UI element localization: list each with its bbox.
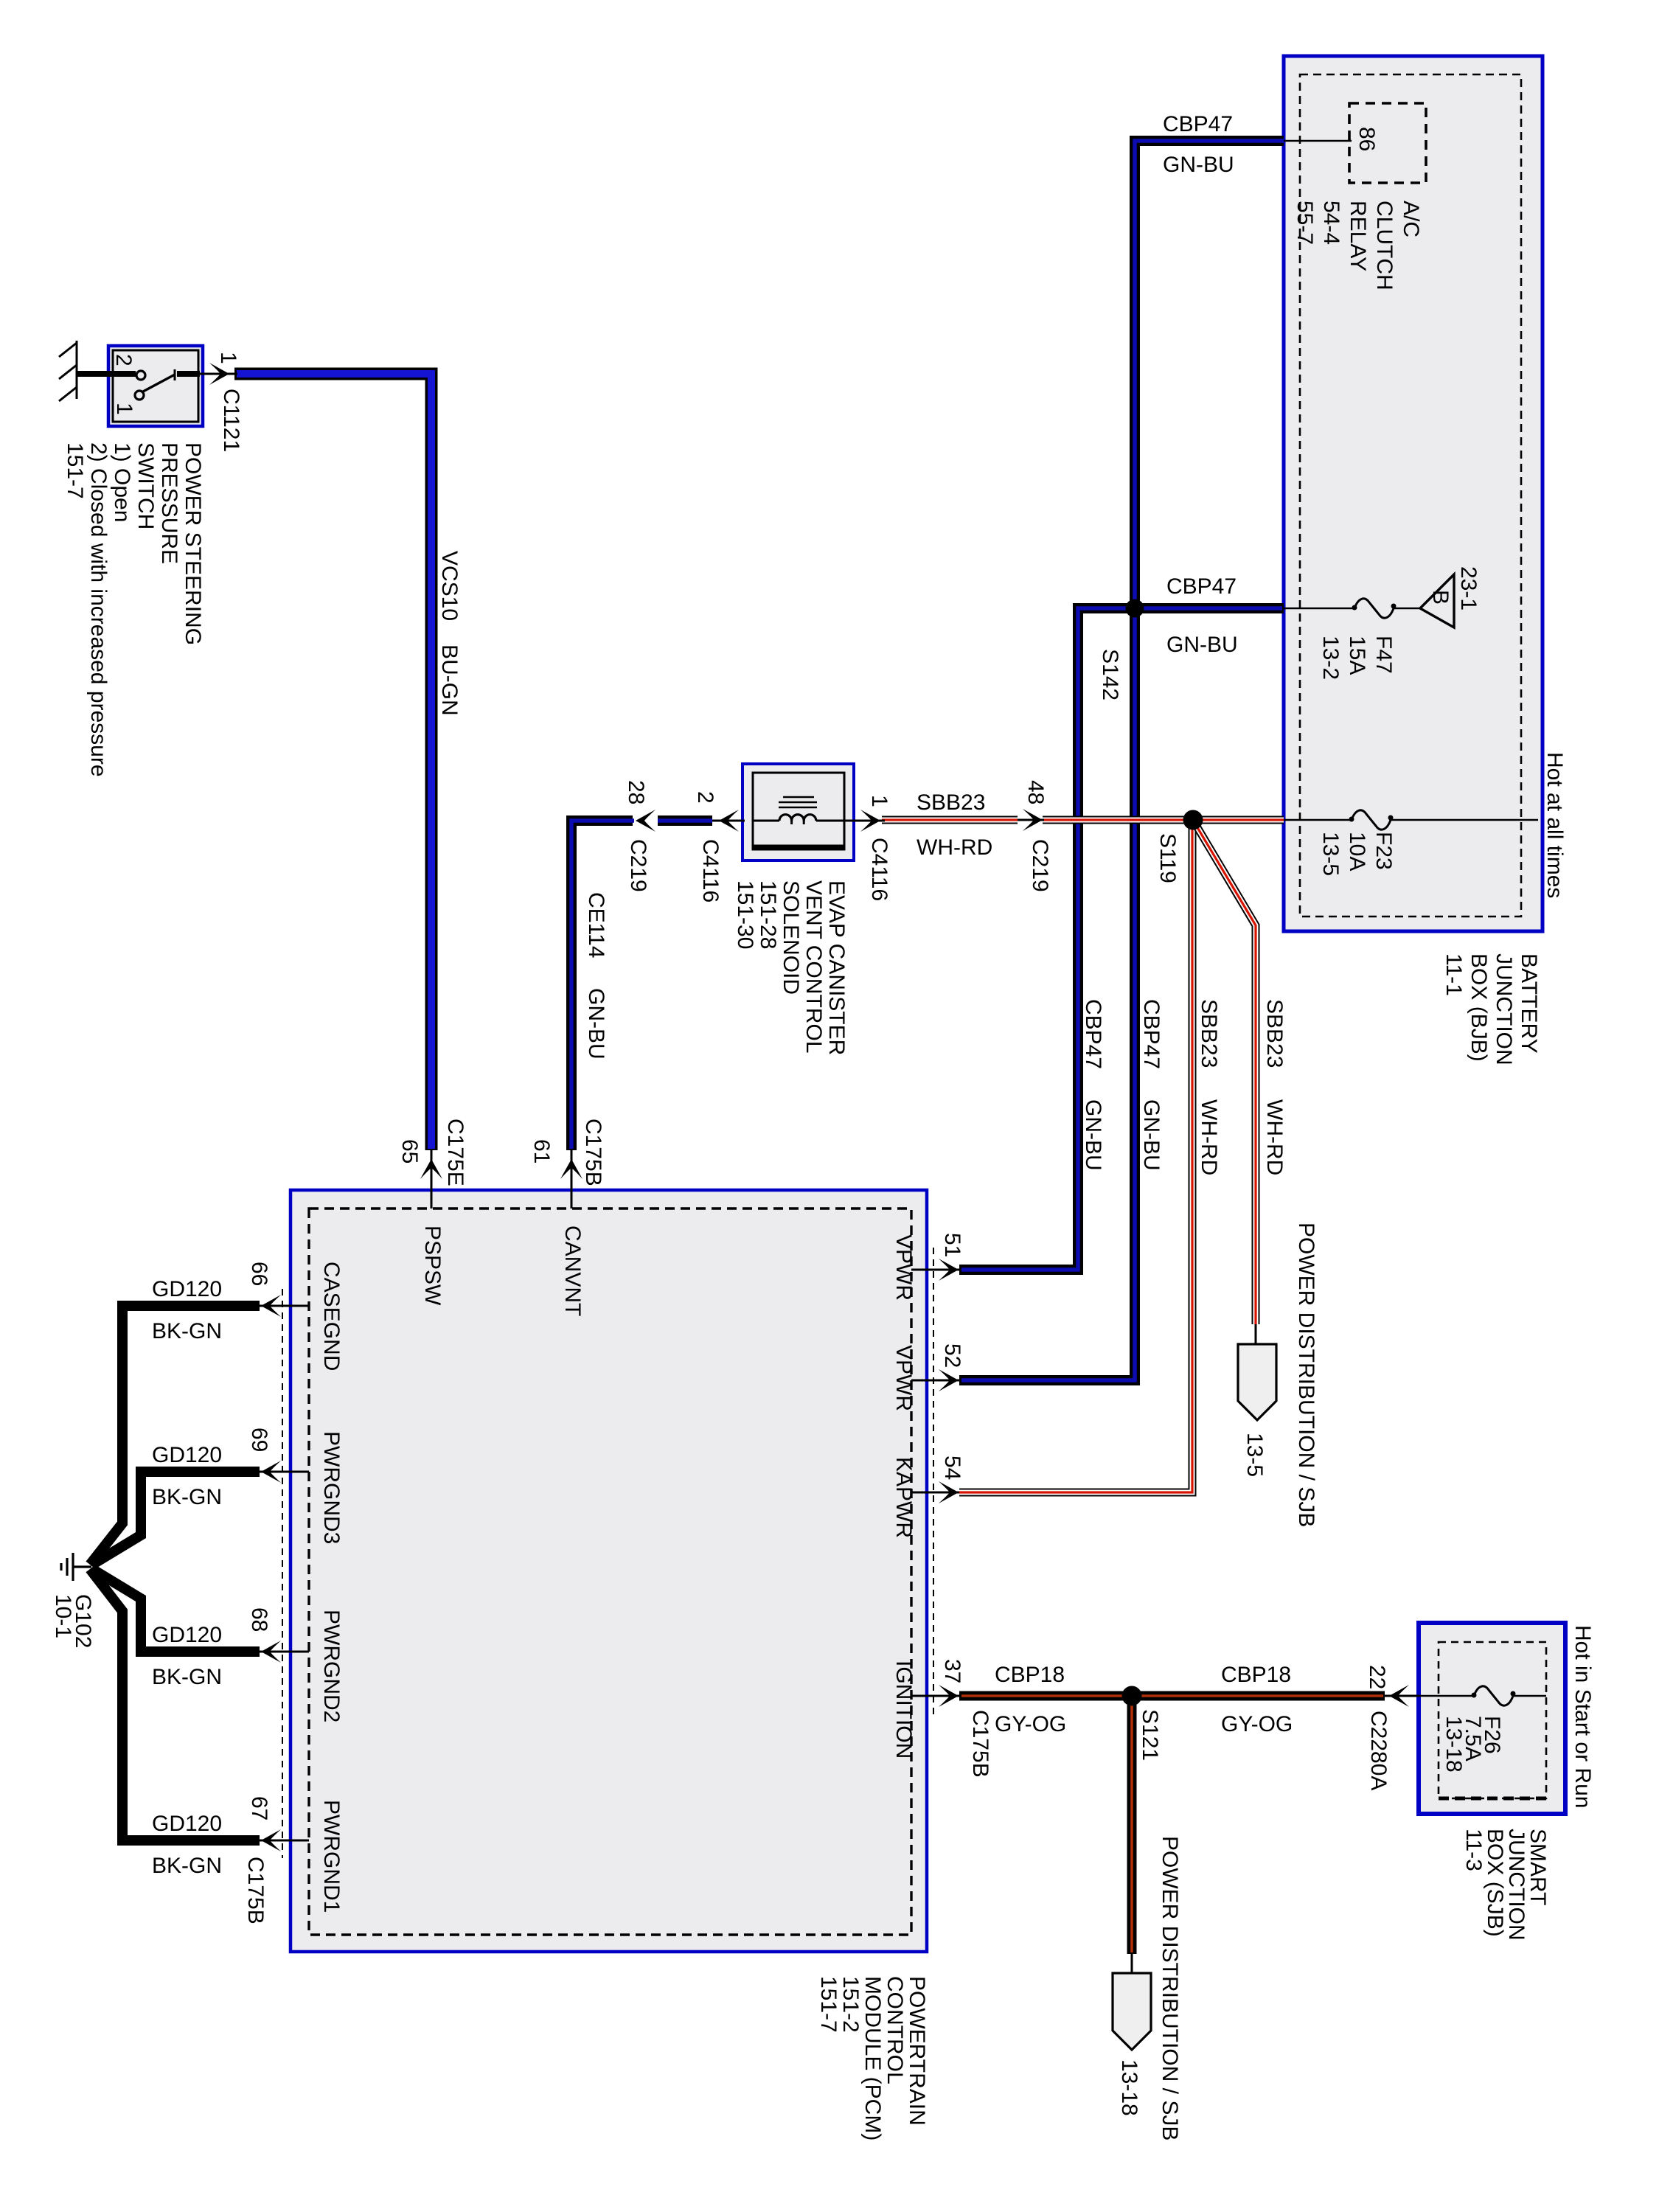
label F26 7.5A 13-18 xyxy=(1441,1716,1504,1773)
svg-text:WH-RD: WH-RD xyxy=(917,835,992,860)
label S121 xyxy=(1138,1709,1162,1761)
svg-text:PWRGND2: PWRGND2 xyxy=(319,1610,344,1722)
svg-text:CBP18: CBP18 xyxy=(1221,1663,1291,1687)
svg-text:GD120: GD120 xyxy=(152,1277,222,1301)
svg-text:GN-BU: GN-BU xyxy=(584,988,608,1060)
label hot in start or run xyxy=(1571,1625,1595,1808)
svg-text:S142: S142 xyxy=(1098,649,1122,700)
svg-text:C175B: C175B xyxy=(243,1857,268,1924)
svg-text:67: 67 xyxy=(247,1796,271,1820)
connector arrow PCM pin 61 xyxy=(560,1159,582,1179)
label pin 69 PWRGND3 xyxy=(247,1427,271,1452)
wire PCM pin 52 stub xyxy=(911,1380,959,1382)
label SBB23 WH-RD vertical 2 xyxy=(1262,999,1287,1068)
svg-text:23-1: 23-1 xyxy=(1456,566,1481,611)
svg-text:GD120: GD120 xyxy=(152,1812,222,1836)
svg-text:CBP47: CBP47 xyxy=(1139,999,1164,1069)
connector arrow PCM pin 67 xyxy=(261,1829,281,1851)
label 1 C4116 xyxy=(867,795,891,807)
svg-text:S119: S119 xyxy=(1155,833,1180,883)
svg-text:BK-GN: BK-GN xyxy=(152,1665,222,1689)
battery junction box BJB outline xyxy=(1284,56,1543,931)
connector arrow PCM pin 37 xyxy=(939,1685,959,1707)
connector arrow PCM pin 69 xyxy=(261,1461,281,1483)
label hot at all times xyxy=(1543,752,1567,898)
label switch pin 1 xyxy=(112,403,136,415)
svg-text:VCS10: VCS10 xyxy=(437,551,462,621)
wire CBP18 GY-OG from S121 down to power distribution arrow 13-18 xyxy=(1127,1696,1137,1973)
svg-text:C175E: C175E xyxy=(443,1119,467,1186)
svg-text:BK-GN: BK-GN xyxy=(152,1319,222,1343)
powertrain control module PCM outline xyxy=(291,1190,927,1952)
label A/C clutch relay xyxy=(1293,201,1423,291)
svg-text:WH-RD: WH-RD xyxy=(1262,1099,1287,1175)
wire PCM pin 68 stub xyxy=(260,1651,309,1653)
splice junction S121 xyxy=(1122,1686,1142,1706)
svg-text:66: 66 xyxy=(247,1262,271,1286)
fuse F26 7.5A xyxy=(1472,1686,1516,1705)
fuse F23 10A xyxy=(1349,810,1394,829)
pressure switch contacts xyxy=(111,369,200,400)
label S142 xyxy=(1098,649,1122,700)
wire PCM pin 65 stub xyxy=(431,1150,433,1208)
svg-text:GN-BU: GN-BU xyxy=(1139,1099,1164,1171)
svg-text:1: 1 xyxy=(867,795,891,807)
connector arrow PCM pin 65 xyxy=(420,1159,442,1179)
wire CE114 GN-BU from solenoid pin 2 to PCM pin 61 xyxy=(571,821,745,1150)
svg-text:Hot at all times: Hot at all times xyxy=(1543,752,1567,898)
wire PCM pin 61 stub xyxy=(571,1150,573,1208)
svg-text:GD120: GD120 xyxy=(152,1623,222,1647)
wire CBP18 GY-OG from PCM pin 37 through S121 to SJB xyxy=(959,1691,1419,1701)
svg-text:BK-GN: BK-GN xyxy=(152,1485,222,1509)
wire VCS10 BU-GN from pressure switch to PCM pin 65 xyxy=(234,374,431,1150)
label pin 68 PWRGND2 xyxy=(247,1607,271,1632)
svg-text:Hot in Start or Run: Hot in Start or Run xyxy=(1571,1625,1595,1808)
label pin 52 VPWR xyxy=(940,1343,964,1368)
solenoid coil xyxy=(753,797,844,824)
label 48 C219 xyxy=(1023,780,1048,804)
svg-text:GN-BU: GN-BU xyxy=(1163,153,1234,177)
svg-text:F2310A13-5: F2310A13-5 xyxy=(1318,832,1396,876)
svg-text:C219: C219 xyxy=(626,839,650,892)
fuse F47 15A xyxy=(1352,599,1397,618)
svg-text:GN-BU: GN-BU xyxy=(1166,633,1238,657)
label power distribution SJB 13-18 xyxy=(1158,1836,1182,2140)
ground G102 symbol xyxy=(61,1553,91,1581)
label battery junction box BJB 11-1 xyxy=(1441,953,1541,1065)
svg-text:1: 1 xyxy=(216,352,240,364)
svg-text:POWER DISTRIBUTION / SJB: POWER DISTRIBUTION / SJB xyxy=(1294,1222,1318,1527)
wire GD120 BK-GN ground trunk to PCM pin 68 PWRGND2 xyxy=(92,1569,260,1652)
svg-text:GD120: GD120 xyxy=(152,1443,222,1467)
wire GD120 BK-GN ground trunk to PCM pin 67 PWRGND1 xyxy=(90,1569,260,1840)
svg-text:37: 37 xyxy=(940,1659,964,1683)
wire GD120 BK-GN ground trunk to PCM pin 66 CASEGND xyxy=(90,1306,260,1565)
wire BJB internal fuse F47 branch xyxy=(1284,608,1354,610)
power steering pressure switch box xyxy=(108,346,203,426)
svg-text:C2280A: C2280A xyxy=(1366,1711,1391,1790)
label pin 51 VPWR xyxy=(940,1233,964,1257)
svg-text:IGNITION: IGNITION xyxy=(891,1660,916,1759)
svg-text:SBB23: SBB23 xyxy=(917,790,985,815)
label powertrain control module PCM xyxy=(816,1976,929,2140)
label CBP47 GN-BU vertical 2 xyxy=(1139,999,1164,1069)
PCM connector C175 dashed line left xyxy=(282,1289,283,1858)
svg-text:F4715A13-2: F4715A13-2 xyxy=(1318,636,1396,680)
svg-text:48: 48 xyxy=(1023,780,1048,804)
PCM connector C175 dashed line right xyxy=(933,1248,934,1718)
connector arrow PCM pin 51 xyxy=(939,1259,959,1281)
label smart junction box SJB 11-3 xyxy=(1461,1829,1550,1941)
svg-text:BK-GN: BK-GN xyxy=(152,1854,222,1878)
connector arrow 22 C2280A xyxy=(1385,1685,1419,1707)
wire SBB23 WH-RD from solenoid pin 1 through S119 to fuse F23 xyxy=(882,816,1284,824)
svg-text:PSPSW: PSPSW xyxy=(420,1225,445,1306)
wire pressure switch pin 1 to connector C1121 xyxy=(200,373,215,375)
label pin 66 CASEGND xyxy=(247,1262,271,1286)
svg-text:VPWR: VPWR xyxy=(891,1234,916,1301)
label 28 C219 xyxy=(624,780,648,804)
wire PCM pin 51 stub xyxy=(911,1269,959,1271)
connector arrow 2 C4116 xyxy=(719,810,739,832)
svg-text:CANVNT: CANVNT xyxy=(560,1225,585,1316)
svg-text:KAPWR: KAPWR xyxy=(891,1457,916,1538)
svg-text:28: 28 xyxy=(624,780,648,804)
svg-text:CBP47: CBP47 xyxy=(1081,999,1105,1069)
label PCM pin 65 C175E xyxy=(397,1139,422,1164)
label pin 37 IGNITION C175B xyxy=(940,1659,964,1683)
svg-text:BU-GN: BU-GN xyxy=(437,644,462,716)
label pin 67 PWRGND1 C175B xyxy=(247,1796,271,1820)
svg-text:GN-BU: GN-BU xyxy=(1081,1099,1105,1171)
wire stub solenoid pin 1 xyxy=(844,820,885,822)
svg-text:13-18: 13-18 xyxy=(1117,2059,1141,2116)
connector arrow PCM pin 54 xyxy=(939,1481,959,1503)
svg-text:68: 68 xyxy=(247,1607,271,1632)
splice junction S142 xyxy=(1126,599,1144,618)
label triangle B xyxy=(1428,590,1453,605)
svg-text:52: 52 xyxy=(940,1343,964,1368)
connector arrow 1 C4116 xyxy=(848,810,885,832)
svg-text:PWRGND1: PWRGND1 xyxy=(319,1800,344,1913)
svg-text:2: 2 xyxy=(111,354,136,366)
chassis ground at pressure switch xyxy=(59,341,77,401)
connector arrow 28 C219 xyxy=(636,810,655,832)
label CE114 GN-BU xyxy=(584,892,608,959)
label switch pin 2 xyxy=(111,354,136,366)
svg-text:SBB23: SBB23 xyxy=(1197,999,1221,1068)
svg-text:69: 69 xyxy=(247,1427,271,1452)
svg-text:WH-RD: WH-RD xyxy=(1197,1099,1221,1175)
svg-text:C4116: C4116 xyxy=(698,839,723,902)
connector arrow PCM pin 66 xyxy=(261,1295,281,1317)
label S119 xyxy=(1155,833,1180,883)
svg-text:PWRGND3: PWRGND3 xyxy=(319,1431,344,1544)
svg-text:65: 65 xyxy=(397,1139,422,1164)
svg-text:VPWR: VPWR xyxy=(891,1345,916,1411)
label power distribution SJB 13-5 xyxy=(1294,1222,1318,1527)
smart junction box SJB outline xyxy=(1419,1623,1565,1814)
label power steering pressure switch xyxy=(63,442,205,777)
connector arrow PCM pin 52 xyxy=(939,1369,959,1391)
svg-text:CBP47: CBP47 xyxy=(1166,574,1237,599)
svg-text:54: 54 xyxy=(940,1455,964,1480)
wire PCM pin 66 stub xyxy=(260,1305,309,1307)
label F47 15A 13-2 xyxy=(1318,636,1396,680)
wire pressure switch pin 2 to chassis ground xyxy=(77,371,111,377)
svg-text:51: 51 xyxy=(940,1233,964,1257)
label 22 C2280A xyxy=(1365,1665,1389,1689)
svg-text:B: B xyxy=(1428,590,1453,605)
label PSPSW xyxy=(420,1225,445,1306)
wire CBP47 GN-BU from S142 to PCM pin 51 xyxy=(959,608,1284,1270)
label pin 54 KAPWR xyxy=(940,1455,964,1480)
label VCS10 BU-GN xyxy=(437,551,462,621)
label 2 C4116 xyxy=(693,791,717,804)
A/C clutch relay pin 86 dashed box xyxy=(1349,103,1426,183)
connector arrow C1121 xyxy=(209,363,229,385)
svg-text:C175B: C175B xyxy=(968,1710,992,1778)
connector arrow PCM pin 68 xyxy=(261,1641,281,1663)
label 23-1 xyxy=(1456,566,1481,611)
label relay pin 86 xyxy=(1354,127,1379,151)
connector arrow 48 C219 xyxy=(1018,809,1044,831)
wire GD120 BK-GN ground trunk to PCM pin 69 PWRGND3 xyxy=(92,1472,260,1565)
label F23 10A 13-5 xyxy=(1318,832,1396,876)
label G102 10-1 xyxy=(51,1594,95,1648)
wire PCM pin 69 stub xyxy=(260,1471,309,1473)
svg-text:C1121: C1121 xyxy=(219,389,243,452)
splice junction S119 xyxy=(1183,810,1203,830)
wire BJB internal to pin 86 xyxy=(1284,140,1352,142)
svg-text:GY-OG: GY-OG xyxy=(995,1712,1066,1736)
svg-text:1: 1 xyxy=(112,403,136,415)
svg-text:C219: C219 xyxy=(1028,839,1052,892)
fusible link triangle B 23-1 xyxy=(1420,574,1454,627)
svg-text:86: 86 xyxy=(1354,127,1379,151)
svg-text:C175B: C175B xyxy=(581,1119,605,1186)
label PCM pin 61 C175B xyxy=(529,1139,554,1164)
wire PCM pin 67 stub xyxy=(260,1840,309,1842)
wire SJB internal fuse F26 hot in start or run xyxy=(1419,1695,1474,1697)
svg-text:C4116: C4116 xyxy=(867,838,891,901)
svg-text:POWER DISTRIBUTION / SJB: POWER DISTRIBUTION / SJB xyxy=(1158,1836,1182,2140)
wire CBP47 GN-BU from BJB pin 86 down through S142 to PCM pin 52 xyxy=(959,141,1284,1380)
svg-text:GY-OG: GY-OG xyxy=(1221,1712,1293,1736)
svg-text:S121: S121 xyxy=(1138,1709,1162,1761)
svg-text:CBP18: CBP18 xyxy=(995,1663,1065,1687)
wire PCM pin 54 stub xyxy=(911,1492,959,1494)
svg-text:61: 61 xyxy=(529,1139,554,1164)
svg-text:22: 22 xyxy=(1365,1665,1389,1689)
svg-text:CBP47: CBP47 xyxy=(1163,112,1233,136)
svg-text:CE114: CE114 xyxy=(584,892,608,959)
label SBB23 WH-RD vertical 1 xyxy=(1197,999,1221,1068)
svg-text:CASEGND: CASEGND xyxy=(319,1262,344,1371)
power distribution arrow 13-5 xyxy=(1238,1344,1276,1420)
svg-text:SBB23: SBB23 xyxy=(1262,999,1287,1068)
label CANVNT xyxy=(560,1225,585,1316)
wire SBB23 WH-RD from S119 down to PCM pin 54 KAPWR xyxy=(959,820,1192,1492)
EVAP canister vent control solenoid box xyxy=(742,764,854,860)
wire BJB internal fuse F23 hot at all times xyxy=(1284,819,1352,821)
label CBP47 GN-BU vertical 1 xyxy=(1081,999,1105,1069)
svg-text:2: 2 xyxy=(693,791,717,804)
label pin 1 connector C1121 xyxy=(216,352,240,364)
wire PCM pin 37 stub xyxy=(911,1695,959,1697)
svg-text:13-5: 13-5 xyxy=(1242,1433,1267,1477)
power distribution arrow 13-18 xyxy=(1113,1973,1151,2050)
wire SBB23 WH-RD from S119 down to power distribution arrow 13-5 xyxy=(1194,821,1256,1344)
label EVAP canister vent control solenoid xyxy=(733,880,849,1055)
